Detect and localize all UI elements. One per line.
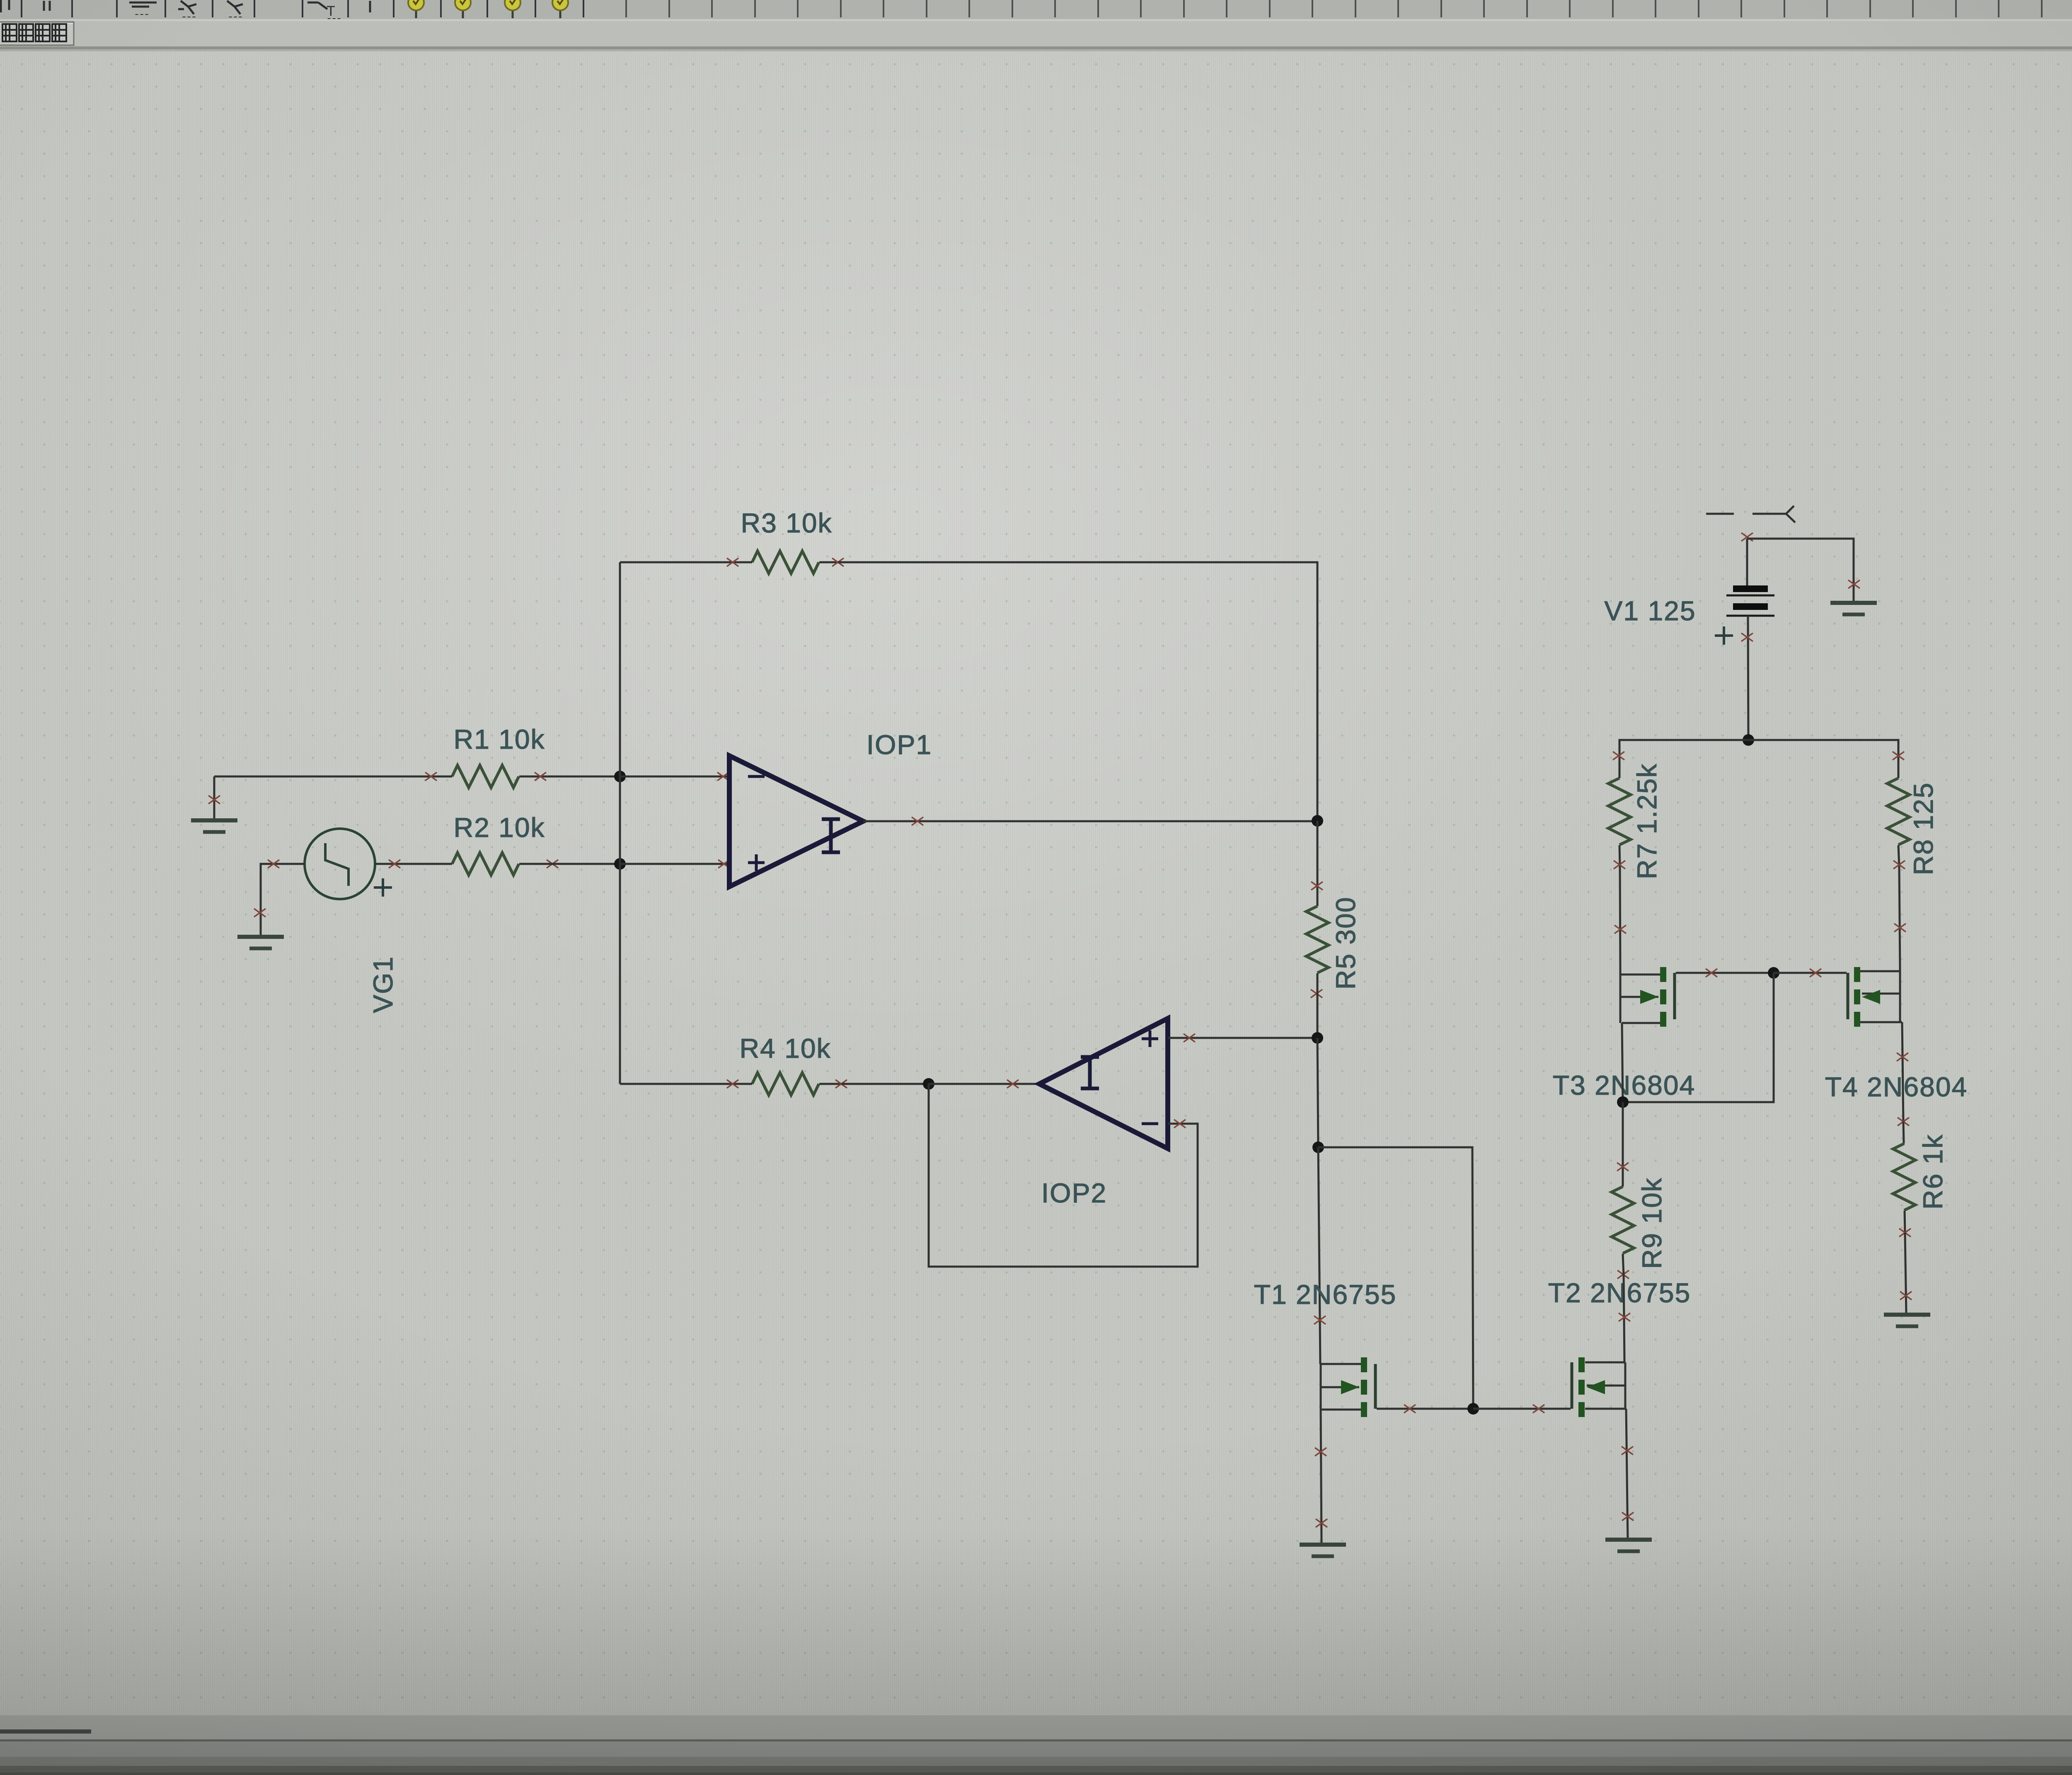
- node T1/T2 gate bus: [1467, 1403, 1479, 1415]
- wire R2 to non-inverting node: [546, 863, 620, 865]
- wire T3 drain down: [1622, 1023, 1623, 1102]
- op-amp IOP2: [1039, 1018, 1168, 1149]
- wire V1 top to ground: [1747, 539, 1854, 603]
- resistor R4: [733, 1073, 841, 1095]
- bottom scrollbar area: [0, 1715, 2072, 1775]
- wire T4 drain down to R6: [1902, 1022, 1903, 1122]
- wire IOP2 + input to R5 node: [1168, 1037, 1317, 1039]
- resistor R1: [425, 765, 546, 788]
- wire V1+ rail to R7 and R8: [1619, 740, 1898, 756]
- ground (below T2): [1605, 1540, 1652, 1551]
- node IOP1 output / R3 / R5: [1312, 815, 1323, 827]
- label VG1: [368, 956, 398, 1013]
- ground (below R6): [1884, 1315, 1930, 1326]
- toolbar icon fragments (left group): [1, 0, 370, 19]
- resistor R6: [1893, 1122, 1915, 1233]
- X terminal mark R6 ground: [1900, 1291, 1912, 1300]
- svg-text:T1 2N6755: T1 2N6755: [1254, 1279, 1397, 1310]
- svg-text:R4 10k: R4 10k: [739, 1033, 831, 1064]
- wire R1 to inverting node: [546, 776, 620, 778]
- X terminal marks R3: [727, 558, 844, 566]
- X terminal mark IOP2-: [1174, 1120, 1186, 1128]
- svg-text:IOP1: IOP1: [867, 729, 932, 760]
- node A (R1 / IOP1- / bus): [614, 771, 626, 782]
- wire R3 to output column: [838, 562, 1317, 821]
- node R5 / IOP2+: [1312, 1032, 1323, 1044]
- wire IOP2 feedback loop: [929, 1084, 1198, 1267]
- X terminal mark T4 source: [1894, 924, 1906, 932]
- label R4 10k: [739, 1033, 831, 1064]
- resistor R2: [425, 853, 546, 875]
- transistor T4 2N6804: [1848, 967, 1902, 1027]
- svg-text:VG1: VG1: [368, 956, 398, 1013]
- node B (R2 / IOP1+ / bus): [614, 858, 626, 870]
- resistor R7: [1608, 756, 1631, 866]
- label T2 2N6755: [1548, 1277, 1691, 1308]
- wire VG1 to R2: [375, 863, 450, 865]
- label R2 10k: [453, 812, 545, 843]
- X terminal marks R7: [1613, 752, 1625, 869]
- X terminal marks VG1/ground2: [254, 860, 279, 917]
- svg-text:R6 1k: R6 1k: [1917, 1134, 1948, 1209]
- resistor R5: [1306, 906, 1329, 1038]
- X terminal mark IOP1 out: [912, 817, 923, 825]
- svg-text:R5 300: R5 300: [1330, 897, 1361, 990]
- label T1 2N6755: [1254, 1279, 1397, 1310]
- svg-text:R8 125: R8 125: [1908, 782, 1939, 875]
- X terminal marks T4 drain / R6 top: [1897, 1053, 1909, 1126]
- node T3/T4 gate bus: [1768, 967, 1779, 979]
- resistor R8: [1887, 756, 1910, 866]
- X terminal mark IOP2+: [1184, 1034, 1195, 1042]
- label R6 1k: [1917, 1134, 1948, 1209]
- svg-text:T4 2N6804: T4 2N6804: [1825, 1071, 1968, 1102]
- wire T3 gate lead to gate bus node: [1676, 972, 1774, 974]
- wire T2 source down to ground: [1626, 1409, 1628, 1540]
- wire IOP1 output: [863, 820, 1317, 822]
- wire IOP1 inverting input: [620, 776, 729, 778]
- label V1 125: [1604, 595, 1696, 626]
- wire R1 input net: [214, 776, 450, 778]
- wire R8 to T4 source: [1899, 866, 1900, 971]
- node T3 drain / R9: [1617, 1096, 1629, 1108]
- wire IOP1 out node down to R5: [1317, 821, 1319, 906]
- ground (top-left, R1 input): [191, 776, 237, 832]
- voltage generator VG1: [305, 829, 392, 899]
- label IOP2: [1041, 1178, 1107, 1208]
- wire tap down to T1 drain: [1318, 1147, 1320, 1364]
- toolbar background strip: [0, 0, 2072, 51]
- label R9 10k: [1636, 1177, 1667, 1269]
- tab 造商模型: [0, 22, 74, 45]
- wire IOP1 non-inverting input: [620, 863, 729, 865]
- svg-text:T: T: [327, 3, 335, 19]
- toolbar separator ticks: [22, 0, 2072, 17]
- wire R4 to IOP2 output node: [841, 1083, 929, 1085]
- X terminal mark T2 drain: [1619, 1313, 1630, 1321]
- wire R6 to ground: [1905, 1233, 1906, 1315]
- wire gate riser to T1/T2 gates: [1318, 1147, 1473, 1409]
- X terminal marks R5: [1311, 882, 1323, 998]
- toolbar meter icons (yellow): [408, 0, 568, 18]
- svg-text:R2 10k: R2 10k: [453, 812, 545, 843]
- label IOP1: [867, 729, 932, 760]
- wire gate bus to T4: [1774, 972, 1847, 974]
- transistor T1 2N6755: [1320, 1357, 1375, 1417]
- svg-text:R1 10k: R1 10k: [453, 724, 545, 754]
- wire gate bus tie down to T3 drain node: [1623, 973, 1774, 1102]
- X terminal mark IOP1-: [717, 772, 729, 781]
- X terminal mark T1 gate: [1404, 1405, 1416, 1413]
- wire T1 gate lead: [1377, 1408, 1473, 1410]
- X terminal mark R6 bottom: [1899, 1228, 1911, 1237]
- wire R7 to T3 source: [1620, 866, 1620, 975]
- wire R9 to T2 drain: [1624, 1274, 1624, 1362]
- wire gate bus to T2: [1473, 1408, 1571, 1410]
- wire T3 drain node down to R9: [1622, 1102, 1624, 1187]
- transistor T3 2N6804: [1620, 967, 1675, 1027]
- label R8 125: [1908, 782, 1939, 875]
- X terminal marks R1: [425, 772, 546, 781]
- ground (below T1): [1300, 1545, 1346, 1556]
- X terminal marks R4: [727, 1080, 847, 1088]
- wire IOP2 output: [929, 1083, 1039, 1085]
- svg-text:R9 10k: R9 10k: [1636, 1177, 1667, 1269]
- node V1+ rail: [1743, 734, 1754, 746]
- X terminal marks V1: [1741, 533, 1753, 641]
- X terminal mark T2 gate: [1533, 1405, 1544, 1413]
- op-amp IOP1: [729, 756, 863, 887]
- node gate-drive tap: [1312, 1141, 1324, 1153]
- battery arrow marker: [1706, 506, 1795, 522]
- svg-text:T2 2N6755: T2 2N6755: [1548, 1277, 1691, 1308]
- node IOP2 output / R4: [923, 1078, 934, 1090]
- X terminal mark V1 ground: [1848, 580, 1860, 588]
- label R5 300: [1330, 897, 1361, 990]
- X terminal mark T4 gate: [1810, 969, 1821, 977]
- label R1 10k: [453, 724, 545, 754]
- X terminal mark T3 source: [1615, 925, 1626, 933]
- wire T1 source down to ground: [1321, 1410, 1322, 1545]
- resistor R9: [1612, 1187, 1634, 1274]
- wire left vertical bus (R3 left - nodes - R4 left): [619, 562, 621, 1084]
- X terminal mark IOP1+: [718, 860, 730, 868]
- wire bus to R3: [620, 561, 733, 563]
- X terminal marks T1 source / ground: [1315, 1448, 1327, 1527]
- svg-text:V1 125: V1 125: [1604, 595, 1696, 626]
- resistor R3: [733, 551, 838, 573]
- battery V1 125: [1715, 539, 1774, 740]
- wire bus to R4: [620, 1083, 733, 1085]
- ground (below VG1): [237, 937, 284, 948]
- X terminal mark T1 drain: [1314, 1316, 1326, 1324]
- label T4 2N6804: [1825, 1071, 1968, 1102]
- svg-text:R7 1.25k: R7 1.25k: [1631, 763, 1662, 879]
- svg-text:T3 2N6804: T3 2N6804: [1553, 1070, 1696, 1100]
- X terminal marks R8: [1893, 752, 1905, 869]
- ground (V1 negative): [1830, 603, 1877, 614]
- wire R5 node down: [1317, 1038, 1318, 1147]
- X terminal mark IOP2 out: [1007, 1080, 1019, 1088]
- svg-text:R3 10k: R3 10k: [741, 508, 832, 538]
- X terminal mark ground1: [208, 796, 220, 804]
- X terminal mark T3 gate: [1706, 969, 1717, 977]
- wire VG1 left to ground: [261, 864, 305, 937]
- svg-text:IOP2: IOP2: [1041, 1178, 1107, 1208]
- transistor T2 2N6755: [1572, 1357, 1626, 1417]
- label R7 1.25k: [1631, 763, 1662, 879]
- X terminal marks R9: [1617, 1163, 1629, 1279]
- X terminal marks T2 source / ground: [1622, 1446, 1634, 1521]
- X terminal marks R2: [389, 860, 558, 868]
- label T3 2N6804: [1553, 1070, 1696, 1100]
- label R3 10k: [741, 508, 832, 538]
